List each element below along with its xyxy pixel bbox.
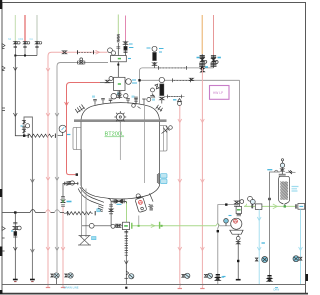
pink x202.4 hop and T-end (201, 284, 204, 289)
hose dashes on vacuum header (173, 78, 191, 82)
bottom head drain nozzle tilted (148, 193, 153, 208)
cyan drop from valve box (258, 209, 260, 284)
pink x179.8 hop and T-end (179, 284, 182, 289)
sprayball circles (108, 48, 113, 53)
vessel shell walls (81, 122, 160, 186)
svg-text:HW LP: HW LP (213, 91, 223, 95)
flange on coil line (116, 47, 120, 48)
steam trap at purge bottom (51, 273, 59, 285)
label CIP branch (11, 230, 13, 232)
rotameter tags (150, 205, 153, 211)
dot below drain line (125, 287, 127, 289)
condenser branch up (270, 172, 280, 206)
label at gauge PI2 (67, 134, 70, 136)
flow arrow on riser x32.4 (31, 179, 35, 183)
dark drop from green junction x269.5 (269, 206, 271, 282)
label under outlet valves (117, 203, 122, 205)
rotameter tilted on bottom nozzle (134, 193, 147, 213)
small fittings left dome cluster (132, 97, 146, 108)
valve stack on orange line (199, 54, 207, 72)
steam trap right of pink drop (65, 273, 73, 278)
label red valves (218, 57, 221, 59)
nozzle tilted top-right (156, 105, 163, 112)
cyan drop from right unit (300, 209, 302, 284)
arrows on pink x179.8 (178, 119, 182, 251)
valve V3 on air line (35, 41, 42, 56)
pump circle (230, 218, 243, 234)
junction dot CIP (14, 211, 16, 213)
vent header riser from dome (140, 68, 143, 104)
flow arrow CIP branch (13, 247, 17, 251)
vessel dome (81, 103, 160, 122)
label PI1 (21, 125, 23, 127)
junction dot green/dark drop (268, 198, 270, 200)
labels near relief stack (147, 48, 164, 52)
hop of gray line over green (217, 224, 220, 285)
hatch end of vent line (289, 170, 293, 174)
green drop to outlet valve (126, 201, 128, 222)
green dot in outlet valve (124, 225, 128, 227)
valve on vacuum header (190, 78, 194, 80)
green dot in upper box (118, 58, 121, 60)
thick bottom border (0, 293, 308, 295)
right nozzle flange (157, 173, 159, 184)
below lower box: M-valve cluster (111, 91, 128, 100)
valve with actuator on pink line (123, 41, 127, 56)
junction dots on green line (138, 225, 140, 227)
gray line from pump top elbow (218, 205, 234, 224)
valve V1 on N2 line (14, 41, 21, 56)
drain drop below outlet valve (124, 230, 128, 285)
CIP branch lower line (14, 251, 16, 280)
CIP branch drop with valve (13, 213, 21, 251)
right support bracket (160, 126, 167, 152)
red line bottom elbow into jacket (67, 172, 76, 175)
condenser body (279, 176, 290, 206)
trap on right cyan drop (293, 256, 302, 262)
hop arc over x48 (46, 210, 51, 213)
trap on cyan drop (255, 257, 267, 263)
cyan tick right of upper box (128, 58, 131, 60)
flanged end discharge (236, 279, 241, 281)
svg-text:DRAIN LINE: DRAIN LINE (64, 285, 79, 289)
cyan tick at gray drop (222, 276, 225, 278)
second circle on transfer line (111, 224, 115, 228)
junction dot orange/vent (201, 67, 203, 69)
gray purge line: elbow + horizontal (57, 63, 108, 273)
pink WFI line: elbow + horizontal to sprayball (48, 52, 108, 287)
junction dots on header (14, 55, 26, 57)
valve on purge horizontal (78, 58, 85, 64)
vent header horizontal y68 (143, 67, 214, 69)
trap on drain drop (124, 271, 133, 279)
sample line from vessel (61, 181, 79, 206)
nozzle stub N4 (126, 99, 130, 104)
lower valve box (114, 77, 125, 90)
nozzle stub N5 (134, 100, 138, 105)
label cyan near hose (97, 209, 100, 212)
bottom fittings on dark drop (267, 276, 271, 282)
wire manifold header (15, 55, 37, 57)
green supply line with coil (117, 15, 119, 35)
hose zigzag on CIP return (64, 212, 93, 215)
hose end bars CIP (68, 211, 96, 215)
upper valve box (111, 56, 127, 62)
coil (spring) (117, 35, 120, 43)
flow arrow on feed pipe (13, 67, 17, 71)
flow arrow 2 on riser x32.4 (31, 249, 35, 253)
junction dot bypass (23, 135, 25, 137)
inline valve box on green line (252, 204, 262, 210)
right gauge of lower box (126, 79, 132, 85)
hose dashes on vent header (159, 66, 187, 70)
bottom valve bowtie (116, 224, 120, 227)
flow arrows gray purge riser (55, 113, 59, 251)
pump red impeller (234, 219, 238, 223)
svg-text:CO2: CO2 (18, 38, 24, 41)
valve on gray drop bottom (216, 275, 221, 281)
vessel bottom head inner (81, 186, 160, 200)
valve stack on red line (211, 55, 219, 68)
CIP return horizontal (3, 212, 65, 214)
flow arrow 2 on feed pipe (13, 113, 17, 117)
green line flange bars (132, 222, 160, 229)
line CO2 supply (red) (24, 15, 26, 42)
harvest green line (131, 225, 216, 227)
condensate pink line x179.8 (179, 106, 181, 251)
TI instrument hanging (178, 99, 182, 106)
flow arrows pink WFI riser (46, 68, 50, 251)
junction dot condenser drain (284, 205, 286, 207)
condenser tube hatch (280, 182, 288, 200)
agitator motor circle (114, 111, 126, 123)
pink x179.8 trap and end (179, 251, 181, 284)
left support bracket (73, 127, 81, 149)
label above branch elbow (267, 169, 272, 171)
gauge PI1 on bypass (26, 124, 30, 128)
red condensate line top (213, 15, 215, 55)
label at sample cluster (67, 201, 72, 203)
valve + gauge pair left of rupture disc (147, 84, 159, 101)
agitator shaft (119, 121, 121, 160)
hop arc over x32.4 (30, 210, 36, 213)
junction dot on gray elbow (225, 203, 227, 205)
vessel bottom jacket outer (78, 187, 104, 206)
flanged end pink WFI at drain (46, 287, 50, 289)
right wall nozzle boxes (cyan) (161, 174, 168, 184)
flow arrow on pink drop (61, 247, 65, 251)
right end unit on green line (296, 204, 305, 210)
flanged end of riser x32.4 (30, 279, 35, 281)
vacuum header horizontal y80.3 (140, 79, 240, 81)
right bracket inner line (163, 126, 165, 152)
hop arc over x57 (55, 210, 61, 213)
shoulder nozzle right tilted with instrument (162, 126, 173, 134)
stand label (92, 237, 97, 240)
hop over gray pump line (216, 224, 220, 226)
condenser vent line right (286, 171, 296, 173)
bottom outlet header y201.3 (108, 198, 127, 226)
green tick in sample valve (62, 200, 64, 203)
line air supply (gray) (36, 15, 38, 42)
valve on WFI horizontal (62, 51, 66, 54)
flow arrow on harvest line (151, 224, 155, 228)
jacket connection dot (76, 173, 78, 176)
hose (zigzag) to sparger gauge (28, 134, 55, 137)
jacket outlet nozzle flanges (98, 206, 103, 212)
drain line (3, 284, 306, 286)
leg floor stand (78, 236, 91, 246)
junction dot below upper box (117, 64, 119, 66)
suction continuation to pump (220, 225, 232, 227)
line below coil (117, 43, 119, 56)
junction dot at riser (138, 79, 140, 81)
pink top line (125, 16, 127, 41)
pink drain drop from sample cluster (62, 207, 64, 288)
red steam line elbow to vessel top block (67, 83, 101, 173)
rupture disc stack x161.5 (159, 77, 164, 103)
svg-text:CA: CA (30, 38, 34, 41)
hose end bars (28, 134, 55, 138)
orange clean steam line (201, 15, 203, 54)
pump drain circle (236, 236, 240, 240)
green segment to skid valves (244, 204, 247, 207)
svg-text:BT200L: BT200L (105, 132, 125, 138)
flow arrow on WFI horizontal (96, 50, 100, 54)
bypass loop pipe (24, 117, 32, 136)
arrow on green right line (273, 204, 278, 209)
green mark in skid box (237, 209, 241, 211)
flange pair before valve (116, 224, 117, 228)
gauge PI2 with stem (58, 125, 67, 135)
condenser label (292, 187, 299, 192)
flanged end CIP branch (13, 279, 18, 281)
arrows on pink x202.4 (201, 119, 205, 251)
nozzle stub N1 (93, 99, 97, 104)
pump drain valve (236, 242, 240, 244)
left legs (82, 150, 87, 237)
dot on discharge (237, 260, 239, 262)
rotameter red float (138, 200, 143, 205)
skid inlet valve cluster (234, 200, 244, 207)
pump discharge drop (237, 234, 239, 280)
valve V2 on CO2 line (23, 41, 30, 56)
arrows on cyan drop (257, 217, 261, 251)
vent circle on transfer line (89, 223, 94, 228)
label at discharge end (223, 276, 226, 278)
vessel top dots (cyan fittings) (92, 93, 155, 101)
hop on condenser branch (274, 170, 278, 172)
dot on gray drop (217, 230, 219, 232)
condensate green line right (244, 205, 296, 207)
label right of lower box (132, 80, 137, 83)
hose on WFI horizontal (78, 50, 94, 54)
manway top-left tilted (75, 105, 84, 114)
condenser top flange (279, 174, 286, 176)
label left of pump (229, 215, 232, 217)
link upper box to lower box (117, 62, 119, 78)
skid control valve box (236, 206, 241, 213)
label orange valves (197, 58, 209, 68)
pink drop from orange header (201, 68, 203, 251)
dip tube (143, 106, 145, 183)
transfer line y225.8 (82, 225, 123, 227)
label TI (173, 99, 176, 101)
arrow on right cyan drop (299, 247, 303, 251)
relief valve stack x154.5 (152, 46, 157, 68)
nozzle stub N2 (101, 98, 105, 103)
flanges below skid box (237, 214, 241, 215)
small tick below drain near x127 (275, 287, 278, 289)
green dot in lower box (118, 83, 121, 85)
vessel top flange band (74, 119, 167, 122)
nozzle cluster center-left with valve (109, 99, 113, 103)
instrument pair on green line (248, 196, 256, 204)
frame-side fitting marks (2, 44, 5, 252)
hose hatching on drain drop (125, 236, 128, 255)
line N2 supply (pale green) (14, 15, 16, 42)
condenser top valve (280, 159, 284, 175)
wire gas feed down-pipe (15, 56, 27, 136)
TI hose line y96.4 (164, 95, 185, 97)
elbow of green drop (125, 201, 127, 203)
inlet valve + gauge on red line (100, 77, 114, 83)
gray riser line x32.4 down (31, 136, 33, 280)
left bracket inner line (76, 127, 78, 149)
cyan label mid drop (262, 242, 265, 244)
pump suction instrument (224, 219, 229, 227)
svg-text:DRN: DRN (274, 288, 280, 292)
arrow on drain drop (124, 261, 128, 265)
flow arrow red riser (65, 102, 69, 106)
flanged end pink drop at drain (61, 287, 65, 289)
label pink valve (129, 44, 133, 48)
pink x202.4 trap and end (201, 251, 203, 284)
bottom outlet valve (square with green dot) (123, 222, 130, 229)
valve on bypass (22, 121, 25, 134)
rotameter drop to transfer line (138, 216, 140, 225)
